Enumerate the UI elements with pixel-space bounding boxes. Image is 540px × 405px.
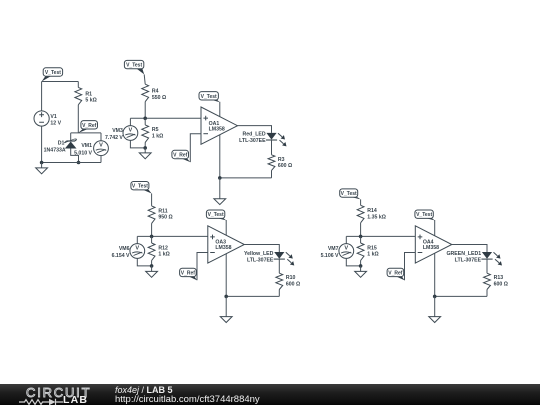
svg-text:V_Ref: V_Ref bbox=[388, 270, 403, 276]
ground circuit 1 bbox=[36, 163, 48, 174]
wire OA1 inverting input bbox=[190, 134, 201, 162]
svg-text:Red_LED: Red_LED bbox=[243, 132, 266, 138]
svg-text:LM358: LM358 bbox=[209, 126, 225, 132]
svg-text:LTL-307EE: LTL-307EE bbox=[239, 138, 266, 144]
junction dot OA1 ground node bbox=[218, 176, 222, 180]
svg-text:VM3: VM3 bbox=[112, 128, 123, 134]
ground below R5 bbox=[139, 148, 151, 159]
svg-text:V_Test: V_Test bbox=[208, 212, 224, 218]
svg-text:V_Ref: V_Ref bbox=[82, 123, 97, 129]
net flag V_Test (circuit 1) bbox=[42, 68, 63, 82]
svg-text:LTL-307EE: LTL-307EE bbox=[455, 257, 482, 263]
svg-text:600 Ω: 600 Ω bbox=[278, 163, 292, 169]
logo wordmark LAB bbox=[63, 394, 88, 405]
wire OA1 output bbox=[238, 126, 272, 133]
svg-text:600 Ω: 600 Ω bbox=[286, 282, 300, 288]
resistor R3 bbox=[268, 140, 292, 178]
svg-text:R3: R3 bbox=[278, 157, 285, 163]
junction dot OA3 ground node bbox=[224, 295, 228, 299]
junction dot R15 bottom bbox=[359, 264, 363, 268]
svg-text:R15: R15 bbox=[367, 245, 377, 251]
junction dot R12 bottom bbox=[150, 264, 154, 268]
svg-text:V1: V1 bbox=[50, 114, 56, 120]
wire top rail of zener branch bbox=[71, 132, 101, 134]
wire OA1 supply vertical bbox=[219, 102, 221, 178]
resistor R10 bbox=[276, 259, 300, 296]
net flag V_Ref (OA4) bbox=[387, 268, 404, 280]
net flag V_Ref (circuit 1) bbox=[78, 121, 97, 133]
ground below R12 bbox=[146, 266, 158, 277]
resistor R12 bbox=[148, 236, 170, 266]
svg-text:V_Ref: V_Ref bbox=[181, 270, 196, 276]
svg-text:V_Ref: V_Ref bbox=[173, 153, 188, 159]
net flag V_Test (OA3 supply) bbox=[206, 210, 226, 220]
svg-text:V: V bbox=[129, 127, 133, 133]
junction dot R14/R15 node bbox=[359, 235, 363, 239]
net flag V_Ref (OA1) bbox=[172, 150, 190, 162]
svg-text:V: V bbox=[344, 245, 348, 251]
svg-text:R10: R10 bbox=[286, 275, 296, 281]
resistor R13 bbox=[484, 259, 508, 296]
ground below OA3 bbox=[220, 296, 232, 322]
net flag V_Test (R14 top) bbox=[340, 189, 361, 200]
svg-text:7.742 V: 7.742 V bbox=[105, 135, 123, 141]
diode GREEN_LED1 LTL-307EE bbox=[447, 251, 502, 266]
op-amp OA4 bbox=[415, 226, 452, 263]
CircuitLab logo wordmark CIRCUIT bbox=[26, 385, 91, 400]
wire top-left horizontal bbox=[42, 81, 79, 83]
svg-text:R14: R14 bbox=[367, 208, 377, 214]
resistor R15 bbox=[357, 236, 378, 266]
diode Red_LED LTL-307EE bbox=[239, 132, 286, 147]
ground below OA1 bbox=[214, 178, 226, 205]
svg-text:V: V bbox=[135, 245, 139, 251]
svg-text:VM7: VM7 bbox=[328, 246, 339, 252]
svg-text:V_Test: V_Test bbox=[132, 184, 148, 190]
svg-text:GREEN_LED1: GREEN_LED1 bbox=[447, 251, 482, 257]
svg-text:1N4733A: 1N4733A bbox=[44, 147, 66, 153]
voltmeter VM6 bbox=[112, 236, 152, 266]
svg-text:R11: R11 bbox=[158, 208, 167, 214]
svg-text:LM358: LM358 bbox=[215, 245, 231, 251]
svg-text:LTL-307EE: LTL-307EE bbox=[247, 257, 274, 263]
svg-text:R1: R1 bbox=[85, 91, 92, 97]
wire OA4 supply vertical bbox=[434, 220, 436, 296]
svg-text:1.35 kΩ: 1.35 kΩ bbox=[367, 214, 386, 220]
wire OA3 output bbox=[244, 245, 279, 253]
net flag V_Test (R4 top) bbox=[124, 60, 144, 74]
svg-text:V: V bbox=[99, 143, 103, 149]
svg-text:600 Ω: 600 Ω bbox=[494, 282, 508, 288]
net flag V_Test (OA4 supply) bbox=[415, 210, 435, 220]
svg-text:12 V: 12 V bbox=[50, 120, 61, 126]
junction dot R5 bottom bbox=[143, 146, 147, 150]
op-amp OA3 bbox=[208, 226, 245, 263]
resistor R5 bbox=[142, 118, 163, 148]
resistor R14 bbox=[357, 199, 386, 236]
footer bar bbox=[0, 384, 540, 405]
wire OA3 inverting input bbox=[197, 253, 208, 281]
voltage source V1 bbox=[34, 111, 62, 127]
wire R3 bottom to ground node bbox=[220, 177, 272, 179]
svg-text:V_Test: V_Test bbox=[45, 70, 61, 76]
svg-text:V_Test: V_Test bbox=[341, 191, 357, 197]
wire V1 bottom lead bbox=[41, 126, 43, 162]
svg-text:V_Test: V_Test bbox=[416, 212, 432, 218]
net flag V_Ref (OA3) bbox=[180, 268, 197, 280]
footer url bbox=[115, 394, 260, 405]
junction dot D1 bottom bbox=[77, 161, 81, 165]
wire OA4 output bbox=[452, 245, 487, 253]
wire OA3 supply vertical bbox=[225, 220, 227, 296]
svg-text:5.106 V: 5.106 V bbox=[321, 253, 339, 259]
wire R13 bottom to ground node bbox=[435, 295, 487, 297]
wire R10 bottom to ground node bbox=[226, 295, 279, 297]
svg-text:5.010 V: 5.010 V bbox=[74, 150, 92, 156]
svg-text:LM358: LM358 bbox=[423, 245, 439, 251]
junction dot OA4 ground node bbox=[433, 295, 437, 299]
wire rail to OA4 + input bbox=[346, 235, 415, 237]
resistor R4 bbox=[142, 74, 166, 118]
resistor R1 bbox=[75, 82, 97, 133]
ground below R15 bbox=[355, 266, 367, 277]
net flag V_Test (R11 top) bbox=[131, 182, 152, 194]
wire V1 top lead bbox=[41, 82, 43, 111]
svg-text:VM6: VM6 bbox=[119, 246, 130, 252]
op-amp OA1 bbox=[201, 107, 238, 144]
diode Yellow_LED LTL-307EE bbox=[244, 251, 294, 266]
svg-text:V_Test: V_Test bbox=[201, 94, 217, 100]
svg-text:6.154 V: 6.154 V bbox=[112, 253, 130, 259]
wire rail to OA3 + input bbox=[137, 235, 208, 237]
svg-text:950 Ω: 950 Ω bbox=[158, 215, 172, 221]
wire rail to OA1 + input bbox=[130, 117, 201, 119]
svg-text:550 Ω: 550 Ω bbox=[152, 95, 166, 101]
svg-text:1 kΩ: 1 kΩ bbox=[367, 252, 378, 258]
ground below OA4 bbox=[429, 296, 441, 322]
wire OA4 inverting input bbox=[405, 253, 416, 281]
net flag V_Test (OA1 supply) bbox=[199, 92, 220, 103]
resistor R11 bbox=[148, 194, 172, 237]
svg-text:1 kΩ: 1 kΩ bbox=[158, 252, 169, 258]
svg-text:1 kΩ: 1 kΩ bbox=[152, 134, 163, 140]
junction dot V1 bottom bbox=[40, 161, 44, 165]
svg-text:R5: R5 bbox=[152, 127, 159, 133]
logo resistor-diode squiggle bbox=[19, 397, 67, 405]
svg-text:V_Test: V_Test bbox=[126, 63, 142, 69]
svg-text:Yellow_LED: Yellow_LED bbox=[244, 251, 274, 257]
svg-text:R12: R12 bbox=[158, 245, 168, 251]
voltmeter VM3 bbox=[105, 118, 145, 148]
svg-text:R13: R13 bbox=[494, 275, 504, 281]
wire bottom rail circuit 1 bbox=[42, 162, 101, 164]
svg-text:D1: D1 bbox=[58, 140, 65, 146]
svg-text:5 kΩ: 5 kΩ bbox=[85, 98, 96, 104]
voltmeter VM1 bbox=[74, 133, 108, 163]
junction dot R11/R12 node bbox=[150, 235, 154, 239]
svg-text:R4: R4 bbox=[152, 88, 159, 94]
zener diode D1 bbox=[44, 133, 79, 163]
footer title: fox4ej / LAB 5 bbox=[115, 385, 173, 395]
svg-text:VM1: VM1 bbox=[81, 143, 92, 149]
voltmeter VM7 bbox=[321, 236, 361, 266]
junction dot R4/R5 node bbox=[143, 117, 147, 121]
